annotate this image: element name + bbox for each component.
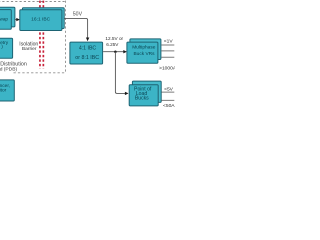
multiphase output wire 2 — [161, 50, 174, 52]
svg-text:4:1 IBC: 4:1 IBC — [79, 46, 97, 52]
isolation barrier red dashed line left — [39, 1, 41, 69]
multiphase output wire 1 — [161, 44, 174, 46]
POL output wire 1 — [161, 91, 174, 93]
wire 16:1 IBC to 4:1 IBC (50V rail) — [64, 18, 87, 37]
arrowhead into Multiphase Buck VRs — [123, 50, 127, 53]
svg-text:Barrier: Barrier — [22, 46, 37, 52]
svg-text:>1000A: >1000A — [159, 65, 175, 71]
arrowhead into 4:1 IBC — [86, 38, 89, 42]
POL output wire 2 — [161, 99, 174, 101]
junction dot on 6.25V rail — [114, 50, 117, 53]
multiphase output wire 3 — [161, 56, 174, 58]
svg-text:12.5V or: 12.5V or — [105, 36, 123, 41]
block 4:1 IBC or 8:1 IBC — [70, 42, 103, 64]
svg-text:itor: itor — [0, 87, 7, 93]
svg-text:<50A: <50A — [163, 103, 175, 109]
svg-text:50V: 50V — [73, 11, 83, 17]
svg-text:<5V: <5V — [164, 87, 174, 93]
isolation barrier red dashed line right — [42, 1, 44, 69]
block 16:1 IBC shadow — [22, 8, 64, 29]
block Hot Swap (cut at left edge) shadow — [0, 7, 15, 27]
block Point of Load Bucks shadow — [132, 81, 161, 102]
svg-text:Buck VRs: Buck VRs — [133, 51, 155, 57]
arrowhead into 16:1 IBC — [16, 18, 20, 21]
arrowhead into Point of Load Bucks — [125, 92, 129, 95]
svg-text:<1V: <1V — [164, 38, 174, 44]
svg-text:16:1 IBC: 16:1 IBC — [31, 17, 50, 23]
svg-text:wap: wap — [0, 16, 8, 21]
block Point of Load Bucks front — [129, 85, 158, 106]
svg-text:or 8:1 IBC: or 8:1 IBC — [75, 55, 99, 61]
svg-text:d (PDB): d (PDB) — [0, 67, 17, 73]
wire 4:1 IBC to Multiphase Buck VRs (6.25V rail) — [103, 51, 124, 53]
svg-text:Multiphase: Multiphase — [132, 45, 156, 51]
block Multiphase Buck VRs front — [127, 42, 158, 63]
PDB dashed region border top — [0, 1, 66, 3]
svg-text:Distribution: Distribution — [0, 62, 27, 68]
svg-text:Bucks: Bucks — [135, 96, 149, 102]
block Telemetry (cut at left edge) — [0, 38, 13, 58]
PDB dashed region border right — [65, 1, 67, 73]
PDB dashed region border bottom — [14, 72, 66, 74]
block 16:1 IBC front — [20, 10, 62, 31]
block Sequencer Monitor (cut at left edge) — [0, 80, 14, 101]
block Hot Swap front — [0, 10, 11, 30]
wire branch down to Point of Load Bucks — [115, 52, 125, 94]
svg-text:6.25V: 6.25V — [106, 42, 119, 47]
wire Hot Swap to 16:1 IBC — [15, 19, 18, 21]
block Multiphase Buck VRs shadow — [130, 39, 161, 60]
